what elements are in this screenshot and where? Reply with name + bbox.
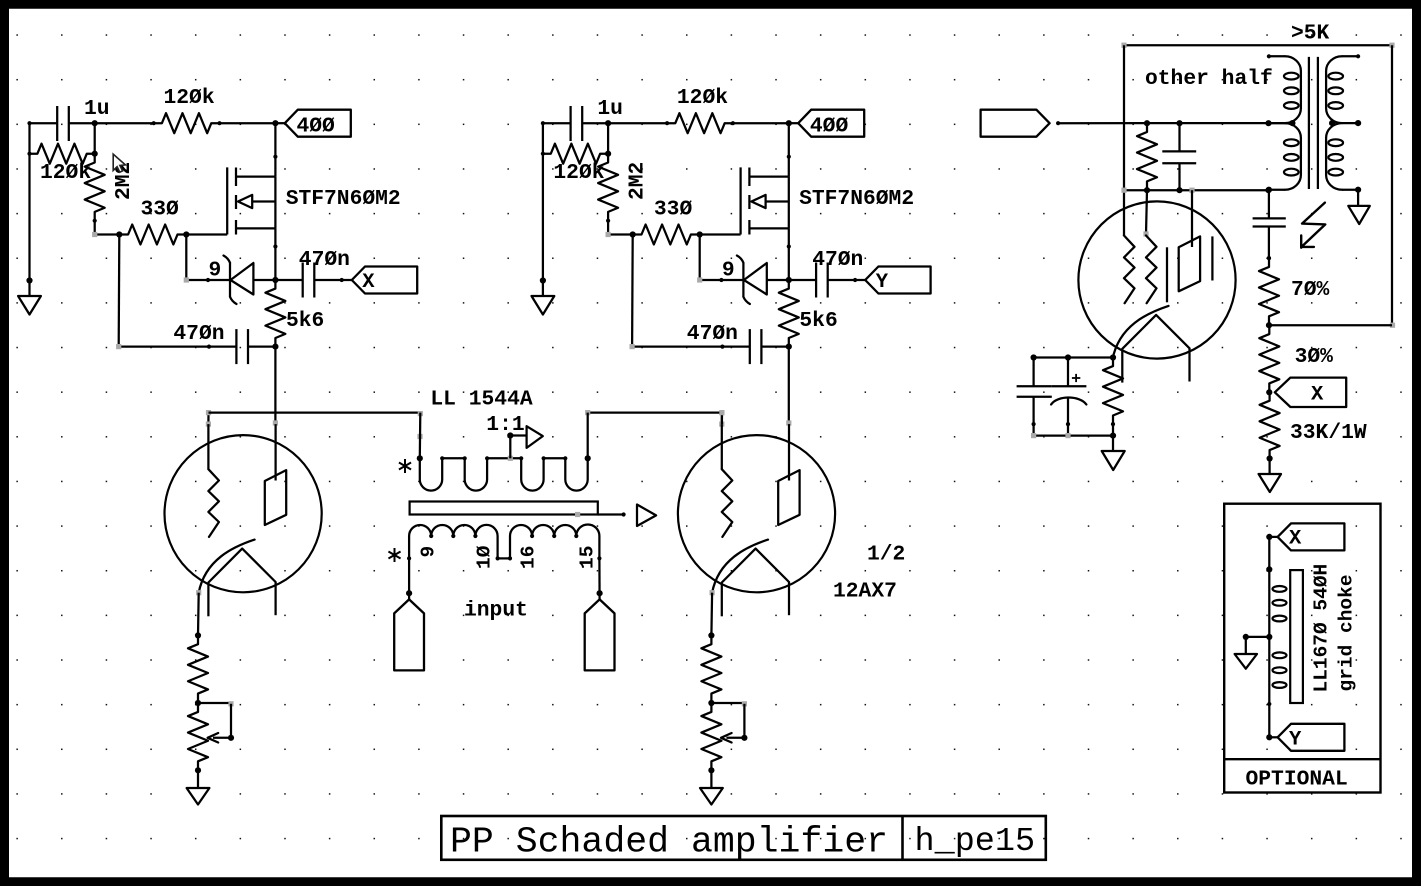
wire grid column (ch1) [206,410,211,469]
svg-text:12Øk: 12Øk [40,161,91,185]
title box [441,816,1046,860]
T1 secondary left lead [419,413,422,459]
T2 primary top terminal [1267,54,1271,58]
capacitor 470n (feedback) (ch2) [720,329,791,364]
tube3 cathode [1122,315,1189,349]
label 1u (ch2) [597,97,623,121]
net flag X (divider) [1275,378,1346,407]
svg-text:PP Schaded amplifier: PP Schaded amplifier [450,822,888,863]
svg-text:1Ø: 1Ø [474,545,496,569]
cathode resistor (tube3) [1103,358,1123,425]
resistor cathode pot (ch2) [701,701,721,774]
capacitor 470n (output) (ch2) [787,263,858,298]
mouse cursor [113,154,125,172]
label net X (ch1) [362,271,375,294]
T2 secondary tap [1342,122,1358,124]
svg-text:47Øn: 47Øn [812,248,863,272]
T2 primary loops [1284,73,1299,80]
wire gate (ch1) [183,231,227,237]
wire choke bottom [1268,704,1270,737]
net flag X (choke) [1278,523,1345,550]
T1 primary polarity asterisk [394,548,396,562]
wire plate column (tube3) [1191,190,1193,247]
resistor 2M2 (ch2) [598,152,618,223]
svg-text:12AX7: 12AX7 [833,580,897,604]
wire plate column (ch2) [786,347,791,481]
svg-text:2M2: 2M2 [625,162,649,200]
tube3 inner bar A [1166,247,1168,302]
resistor 70% [1259,258,1279,325]
label net Y (ch2) [876,271,889,294]
T1 secondary right lead [587,413,589,459]
wire 330 node down to zener (ch2) [697,235,723,283]
net flag Y (choke) [1278,724,1345,751]
resistor 2M2 (ch1) [85,152,105,223]
svg-text:STF7N6ØM2: STF7N6ØM2 [799,187,914,211]
svg-text:X: X [1289,528,1302,551]
wire node to 120k (ch2) [608,122,667,124]
svg-text:9: 9 [209,259,222,283]
svg-text:9: 9 [722,259,735,283]
T2 core [1308,57,1310,189]
ground (cathode) (ch2) [700,788,723,805]
node 5k6 bottom (ch1) [272,344,278,350]
triode plate (ch1) [265,470,286,525]
svg-text:47Øn: 47Øn [687,322,738,346]
wire node to 120k (ch1) [95,122,154,124]
net flag Y (ch2) [855,267,931,294]
svg-text:1u: 1u [597,97,623,121]
resistor 120k (top) (ch1) [152,113,222,133]
feedback box left wire [1123,45,1125,236]
wire cathode down (ch2) [708,590,714,638]
svg-text:1/2: 1/2 [867,543,905,567]
svg-text:input: input [464,599,528,623]
svg-text:1u: 1u [84,97,110,121]
resistor 120k (top) (ch2) [665,113,735,133]
grid choke winding [1268,569,1270,704]
svg-text:5k6: 5k6 [799,309,837,333]
resistor 5k6 (ch2) [779,278,799,349]
resistor 120k (feedback) (ch1) [27,144,96,164]
tube3 grid2 [1146,236,1157,304]
wire cathode down (ch1) [195,590,201,638]
T2 secondary bottom terminal [1342,189,1358,191]
choke center tap [1266,634,1272,640]
transistor drain lead (ch2) [749,123,791,176]
tube3 grid1 [1124,236,1135,304]
resistor 330 (ch1) [117,225,188,245]
svg-text:47Øn: 47Øn [299,248,350,272]
zener diode 9V (ch1) [208,256,275,305]
label 330 (ch2) [654,198,693,222]
ground (choke tap) [1245,637,1247,654]
label 9 (ch2) [722,259,735,283]
triode envelope (ch1) [165,435,322,592]
resistor 33K/1W [1260,392,1280,458]
svg-text:grid choke: grid choke [1336,574,1358,691]
label 9 (ch1) [209,259,222,283]
wire 330-node to 470n lower (ch1) [116,235,209,350]
wire to ground (ch2) [710,770,712,788]
bypass cap A [1032,358,1034,387]
transistor STF7N60M2 gate bar (ch1) [226,167,228,234]
wire left rail (ch1) [26,121,32,284]
T1 primary winding [409,524,599,558]
svg-text:LL 1544A: LL 1544A [430,388,532,412]
svg-text:9: 9 [418,546,440,558]
resistor cathode pot (ch1) [188,701,208,774]
label 470n (output) (ch2) [812,248,863,272]
input connector right [585,599,615,670]
flash symbol [1301,203,1325,248]
svg-text:Y: Y [1289,729,1302,752]
resistor 120k (feedback) (ch2) [541,144,610,164]
tube3 inner bar B [1211,236,1213,280]
transistor source lead (ch1) [236,228,278,248]
label 2M2 (ch2) [625,162,649,200]
grid capacitor (tube3) [1178,123,1180,151]
triode cathode (ch2) [712,540,789,617]
input connector left [394,599,424,670]
triode cathode (ch1) [199,540,276,617]
node top junction (ch2) [605,120,611,126]
resistor 330 (ch2) [631,225,702,245]
resistor 5k6 (ch1) [265,278,285,349]
svg-text:>5K: >5K [1291,22,1330,46]
svg-text:7Ø%: 7Ø% [1291,278,1330,302]
svg-text:47Øn: 47Øn [173,322,224,346]
net flag X (ch1) [342,267,418,294]
label 120k (feedback) (ch1) [40,161,91,185]
tube3 envelope [1078,201,1235,358]
T1 secondary tap [508,456,513,461]
wire pot wiper (ch1) [198,701,234,741]
resistor cathode upper (ch2) [701,633,721,706]
T1 secondary winding [420,458,588,490]
OPTIONAL box [1224,504,1380,793]
T1 primary right terminal [597,556,601,560]
wire left rail (ch2) [540,121,546,284]
wire grid ch1 to T1 [209,411,421,413]
T2 primary bottom terminal [1269,189,1285,191]
feedback box right wire [1391,45,1393,325]
svg-text:1:1: 1:1 [486,413,524,437]
svg-text:5k6: 5k6 [286,309,324,333]
label 330 (ch1) [141,198,180,222]
wire choke top [1268,537,1270,570]
transistor STF7N60M2 gate bar (ch2) [739,167,741,234]
transistor channel bars (ch1) [235,168,237,235]
transistor bulk arrow (ch1) [238,177,275,229]
svg-text:X: X [362,271,375,294]
zener diode 9V (ch2) [721,256,788,305]
ground (T2 secondary) [1357,190,1359,206]
T1 tap arrow [527,426,543,448]
ground (left rail) (ch1) [18,281,41,315]
wire 120k to drain node (ch2) [733,120,792,126]
T1 shield lead [598,513,624,515]
label 400 (ch2) [810,115,849,139]
wire 120k to drain node (ch1) [220,120,279,126]
T2 secondary loops [1328,73,1343,80]
ground (left rail) (ch2) [532,281,555,315]
svg-text:12Øk: 12Øk [677,86,728,110]
tube3 plate [1179,236,1200,291]
transistor drain lead (ch1) [236,123,278,176]
label 470n (feedback) (ch2) [687,322,738,346]
wire top to cap (ch2) [543,122,571,124]
wire source to zener node (ch2) [786,247,792,284]
T1 core shield [410,502,598,515]
svg-text:STF7N6ØM2: STF7N6ØM2 [286,187,401,211]
label 2M2 (ch1) [112,162,136,200]
label STF7N60M2 (ch2) [799,187,914,211]
transistor channel bars (ch2) [748,168,750,235]
wire T1 to grid ch2 [588,411,722,413]
svg-text:OPTIONAL: OPTIONAL [1246,768,1348,792]
wire cathode bottom [1032,424,1034,436]
wire node down to 2M2 (ch1) [92,123,98,157]
T1 primary center link [498,557,510,559]
capacitor 470n (output) (ch1) [273,263,344,298]
coupling capacitor [1268,190,1270,219]
svg-text:h_pe15: h_pe15 [915,823,1036,861]
transistor bulk arrow (ch2) [751,177,788,229]
label 120k (top) (ch1) [164,86,215,110]
wire pot wiper (ch2) [711,701,747,741]
wire plate column (ch1) [273,347,278,481]
pot wiper arrow (ch1) [208,733,231,743]
triode grid (ch1) [208,469,219,537]
feedback box top wire [1124,44,1392,46]
wire 2M2 to 330 (ch2) [606,221,636,238]
capacitor 1u (ch2) [571,106,609,141]
svg-text:12Øk: 12Øk [553,161,604,185]
choke core bar [1290,570,1303,703]
resistor 30% [1259,325,1279,392]
svg-text:Y: Y [876,271,889,294]
svg-text:4ØØ: 4ØØ [297,115,336,139]
plus sign [1072,377,1080,379]
svg-text:other half: other half [1145,67,1273,91]
wire RC bottom [1124,189,1269,191]
svg-text:16: 16 [518,546,540,569]
label 1u (ch1) [84,97,110,121]
wire cathode top (tube3) [1034,356,1113,358]
label 120k (top) (ch2) [677,86,728,110]
T2 primary spine [1285,56,1301,189]
triode envelope (ch2) [678,435,835,592]
node top junction (ch1) [92,120,98,126]
T2 primary tap [1269,122,1293,124]
capacitor 1u (ch1) [57,106,94,141]
label 120k (feedback) (ch2) [553,161,604,185]
wire 2M2 to 330 (ch1) [92,221,122,238]
T2 secondary spine [1326,56,1342,189]
svg-text:3Ø%: 3Ø% [1295,345,1334,369]
triode plate (ch2) [778,470,799,525]
transistor source lead (ch2) [749,228,791,248]
svg-text:15: 15 [577,546,599,569]
wire to ground (ch1) [197,770,199,788]
triode grid (ch2) [722,469,733,537]
svg-text:LL167Ø 54ØH: LL167Ø 54ØH [1311,564,1333,693]
T1 primary left terminal [407,556,411,560]
T1 shield arrow [637,505,656,527]
power flag 400 (ch2) [789,110,864,137]
capacitor 470n (feedback) (ch1) [207,329,278,364]
ground (cathode) (ch1) [187,788,210,805]
wire grid column (ch2) [719,410,724,469]
ground (33K) [1268,459,1270,475]
label STF7N60M2 (ch1) [286,187,401,211]
wire node down to 2M2 (ch2) [605,123,611,157]
svg-text:4ØØ: 4ØØ [810,115,849,139]
T2 secondary top terminal [1356,54,1360,58]
grid resistor (tube3) [1137,123,1157,190]
wire source to zener node (ch1) [272,247,278,284]
label 5k6 (ch1) [286,309,324,333]
drive flag (empty) [981,110,1050,137]
pot wiper arrow (ch2) [721,733,744,743]
wire 330-node to 470n lower (ch2) [630,235,723,350]
label 470n (feedback) (ch1) [173,322,224,346]
bypass cap B (electrolytic) [1067,358,1069,387]
wire gate (ch2) [697,231,741,237]
svg-text:X: X [1311,384,1324,407]
wire 330 node down to zener (ch1) [184,235,210,283]
T1 secondary polarity asterisk [404,459,406,473]
svg-text:33Ø: 33Ø [141,198,180,222]
ground (tube3 cathode) [1112,436,1114,451]
wire drive to T2 tap [1058,122,1293,124]
wire grid2 column (tube3) [1146,190,1147,234]
resistor cathode upper (ch1) [188,633,208,706]
svg-text:12Øk: 12Øk [164,86,215,110]
label 400 (ch1) [297,115,336,139]
label 470n (output) (ch1) [299,248,350,272]
svg-text:33Ø: 33Ø [654,198,693,222]
svg-text:33K/1W: 33K/1W [1290,421,1367,445]
wire top to cap (ch1) [30,122,58,124]
node 5k6 bottom (ch2) [786,344,792,350]
power flag 400 (ch1) [275,110,350,137]
label 5k6 (ch2) [799,309,837,333]
wire 70/30 node to box [1269,324,1392,326]
